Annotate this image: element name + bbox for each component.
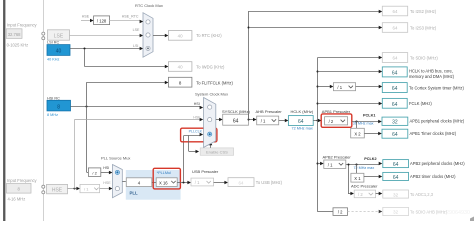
wire PCLK2 to ADC prescaler (348, 164, 354, 195)
dropdown /1 HSE prediv (disabled) (80, 184, 100, 192)
node X2 junction (356, 121, 358, 123)
svg-text:64: 64 (392, 102, 398, 108)
RTC mux radio LSI (selected) (146, 46, 150, 50)
system mux radio HSI (208, 105, 212, 109)
wire HCLK riser up to SDIO (318, 56, 383, 121)
node PLLCLK junction (183, 182, 185, 184)
node FCLK junction (317, 103, 319, 105)
svg-text:PLL: PLL (130, 190, 138, 195)
svg-text:HSI: HSI (103, 166, 109, 170)
svg-text:To RTC (KHz): To RTC (KHz) (196, 33, 222, 38)
APB2 peripheral value box 64 (383, 160, 409, 168)
svg-text:29064930: 29064930 (446, 210, 470, 216)
svg-text:0-1025 KHz: 0-1025 KHz (7, 42, 29, 47)
wire X2 to APB1 timer box (364, 132, 382, 135)
svg-text:LSE: LSE (133, 28, 140, 32)
highlight red box around PLLMul (153, 168, 180, 189)
To Cortex System timer value box 64 (382, 83, 407, 93)
svg-text:/ 2: / 2 (358, 192, 363, 197)
To ADC value box (disabled) (383, 190, 409, 198)
node HSI junction (86, 106, 88, 108)
wire to I2S3 (249, 26, 382, 29)
wire HCLK riser down to APB2 and SDIO AHB (317, 121, 319, 212)
highlight red box around PLLCLK input (181, 128, 217, 142)
svg-text:HSE: HSE (103, 181, 111, 185)
HSI RC box 8 (47, 100, 71, 111)
svg-text:8 MHz: 8 MHz (47, 113, 58, 117)
wire HCLK to FCLK (318, 102, 383, 105)
HCLK value box 64 (288, 116, 313, 126)
wire PLL mux output (122, 181, 126, 183)
svg-text:HCLK (MHz): HCLK (MHz) (291, 109, 314, 114)
node I2S3 junction (248, 27, 250, 29)
svg-text:/ 2: / 2 (338, 210, 343, 215)
corner artifact (470, 217, 474, 222)
svg-text:APB2 timer clocks (MHz): APB2 timer clocks (MHz) (410, 174, 456, 179)
To IWDG value box (168, 62, 192, 72)
svg-text:Enable CSS: Enable CSS (206, 149, 228, 154)
dropdown USB prescaler (disabled) (191, 178, 214, 186)
svg-text:APB2 Prescaler: APB2 Prescaler (323, 155, 352, 160)
system mux radio PLLCLK (selected) (208, 132, 212, 136)
svg-text:To SDIO (MHz): To SDIO (MHz) (410, 56, 438, 61)
svg-text:To ADC1,2,3: To ADC1,2,3 (410, 192, 434, 197)
SYSCLK value box 64 (223, 114, 249, 125)
node Cortex junction (317, 86, 319, 88)
LSI RC box 40 (47, 45, 70, 56)
wire HCLK to APB2 prescaler (318, 162, 324, 165)
To SDIO value box (382, 53, 407, 63)
APB1 peripheral value box 32 (382, 117, 408, 126)
svg-text:To SDIO AHB (MHz): To SDIO AHB (MHz) (410, 209, 448, 214)
wire LSI to RTC mux (70, 44, 143, 50)
svg-text:HSI RC: HSI RC (47, 96, 60, 100)
svg-text:HSE_RTC: HSE_RTC (122, 15, 139, 19)
wire ADC prescaler to ADC box (376, 192, 383, 195)
svg-text:PLL Source Mux: PLL Source Mux (101, 155, 130, 160)
wire PLLCLK riser to system clock mux (184, 133, 204, 182)
svg-text:/ 2: / 2 (92, 170, 97, 175)
node HCLK AHB junction (317, 71, 319, 73)
svg-text:72 MHz max: 72 MHz max (292, 126, 313, 130)
svg-text:/ 1: / 1 (195, 180, 200, 185)
svg-text:64: 64 (393, 162, 399, 168)
svg-text:/ 128: / 128 (97, 18, 107, 23)
svg-text:X 1: X 1 (354, 176, 361, 181)
wire SYSCLK riser to I2S (249, 10, 383, 120)
PLL mux radio HSE (115, 187, 119, 191)
multiplier X2 box (351, 128, 365, 138)
svg-text:USB Prescaler: USB Prescaler (192, 169, 219, 174)
wire Cortex prescaler to Cortex timer box (356, 85, 383, 88)
wire USB prescaler to USB box (214, 181, 228, 184)
svg-text:LSE: LSE (54, 34, 64, 40)
svg-text:SYSCLK (MHz): SYSCLK (MHz) (222, 109, 250, 114)
svg-text:/ 1: / 1 (328, 162, 333, 167)
To USB value box (disabled) (228, 178, 254, 187)
dropdown APB1 prescaler /2 (325, 117, 348, 125)
node SYSCLK junction (248, 119, 250, 121)
svg-text:/ 1: / 1 (84, 187, 89, 192)
wire PCLK2 to X1 (356, 164, 358, 173)
svg-text:64: 64 (392, 86, 398, 92)
svg-text:System Clock Mux: System Clock Mux (195, 91, 228, 96)
To I2S2 value box (382, 6, 407, 16)
HSE input frequency field 8 (7, 183, 32, 193)
SDIO AHB value box (disabled) (383, 207, 409, 215)
svg-text:40: 40 (56, 49, 62, 55)
HSE pin circle OSC_IN (42, 185, 45, 188)
svg-text:32: 32 (392, 120, 398, 126)
svg-text:64: 64 (393, 26, 398, 31)
node APB2 junction (317, 163, 319, 165)
svg-text:memory and DMA (MHz): memory and DMA (MHz) (409, 74, 455, 79)
svg-text:64: 64 (298, 119, 304, 125)
dropdown AHB prescaler /1 (257, 116, 279, 125)
left pane splitter bar (3, 0, 6, 221)
svg-text:Input Frequency: Input Frequency (7, 22, 38, 27)
wire HCLK bottom to /2 divider (318, 211, 333, 213)
APB2 timer value box 64 (383, 172, 409, 180)
multiplier X1 box (351, 173, 364, 182)
LSE input frequency field 32.768 (6, 29, 22, 39)
RTC mux radio HSE_RTC (146, 20, 150, 24)
wire APB2 prescaler to PCLK2 (346, 162, 383, 165)
wire AHB prescaler to HCLK (279, 119, 289, 122)
wire LSE to RTC mux (70, 28, 144, 37)
svg-text:APB1 peripheral clocks (MHz): APB1 peripheral clocks (MHz) (410, 119, 465, 124)
svg-text:32: 32 (393, 210, 398, 215)
Enable CSS button (200, 148, 233, 155)
svg-text:40: 40 (178, 34, 183, 39)
wire X1 to APB2 timer box (364, 175, 382, 178)
wire PLL output to USB prescaler (177, 181, 191, 184)
PLL block panel (126, 170, 181, 200)
svg-text:8: 8 (57, 104, 60, 110)
svg-text:/ 1: / 1 (261, 119, 266, 124)
wire CSS up-arrow into mux (209, 142, 213, 148)
HSE source box (disabled) (47, 184, 68, 193)
svg-text:To I2S2 (MHz): To I2S2 (MHz) (410, 9, 437, 14)
LSE source box (disabled) (48, 30, 70, 40)
svg-text:AHB Prescaler: AHB Prescaler (256, 109, 283, 114)
HSE pin circle OSC_OUT (42, 191, 45, 194)
wire RTC mux output (153, 34, 168, 37)
svg-text:Input Frequency: Input Frequency (7, 178, 38, 183)
mux RTC Clock Mux (143, 13, 153, 58)
wire HSI down to PLL /2 divider (87, 106, 89, 172)
svg-text:To I2S3 (MHz): To I2S3 (MHz) (410, 26, 437, 31)
wire PCLK1 to X2 (356, 121, 358, 128)
wire HSE to system clock mux (75, 115, 204, 121)
PLL input value box 4 (126, 178, 152, 187)
wire HCLK to Cortex prescaler (318, 85, 334, 88)
svg-text:X 16: X 16 (159, 181, 168, 186)
svg-text:LSI RC: LSI RC (47, 40, 59, 44)
svg-text:64: 64 (393, 175, 399, 181)
svg-text:PLLCLK: PLLCLK (189, 129, 203, 133)
dropdown Cortex prescaler /1 (333, 83, 355, 91)
svg-text:HCLK to AHB bus, core,: HCLK to AHB bus, core, (409, 68, 453, 73)
mux System Clock Mux (204, 98, 216, 148)
svg-text:64: 64 (392, 132, 398, 138)
node HSE junction (74, 188, 76, 190)
wire HSE rail up to /128 and system mux (74, 120, 76, 189)
svg-text:X 2: X 2 (354, 132, 361, 137)
node X1 junction (356, 164, 358, 166)
divider /2 box (HSI to PLL) (88, 168, 100, 177)
wire HSI to system clock mux (71, 102, 204, 109)
svg-text:PCLK2: PCLK2 (364, 157, 376, 161)
wire APB1 prescaler to PCLK1 (352, 120, 382, 123)
system mux radio HSE (208, 118, 212, 122)
mux PLL Source Mux (113, 165, 123, 198)
svg-text:APB2 peripheral clocks (MHz): APB2 peripheral clocks (MHz) (410, 161, 465, 166)
svg-text:64: 64 (233, 118, 239, 124)
node LSI junction (84, 48, 86, 50)
wire to Enable CSS (189, 135, 200, 153)
node ADC junction (348, 164, 350, 166)
svg-text:64: 64 (239, 180, 244, 185)
svg-text:/ 2: / 2 (329, 119, 334, 124)
svg-text:64: 64 (393, 9, 398, 14)
To RTC value box (168, 31, 192, 41)
svg-text:/ 1: / 1 (337, 85, 342, 90)
svg-text:APB1 Timer clocks (MHz): APB1 Timer clocks (MHz) (410, 131, 457, 136)
wire HSE to PLL /1 divider (68, 187, 81, 190)
svg-text:ADC Prescaler: ADC Prescaler (351, 183, 378, 188)
wire SYSCLK to AHB prescaler (249, 118, 257, 121)
node HCLK junction (317, 120, 319, 122)
svg-text:HSE: HSE (52, 188, 63, 194)
dropdown PLLMul X16 (156, 178, 177, 187)
To FLITFCLK value box 8 (168, 77, 192, 87)
wire HSI to FLITFCLK (87, 81, 169, 106)
svg-text:HSI: HSI (194, 102, 200, 106)
wire HSI/2 to PLL source mux (101, 166, 113, 174)
LSE pin circle OSC32_OUT (42, 37, 45, 40)
To I2S3 value box (382, 23, 407, 33)
svg-text:FCLK (MHz): FCLK (MHz) (409, 101, 432, 106)
svg-text:To IWDG (KHz): To IWDG (KHz) (196, 64, 225, 69)
svg-text:LSI: LSI (133, 44, 138, 48)
svg-text:40: 40 (178, 65, 183, 70)
dropdown ADC prescaler /2 (disabled) (354, 190, 375, 198)
svg-text:To FLITFCLK (MHz): To FLITFCLK (MHz) (196, 80, 233, 85)
LSE oscillator pin rail (43, 0, 45, 221)
svg-text:To Cortex System timer (MHz): To Cortex System timer (MHz) (409, 85, 464, 90)
svg-text:64: 64 (393, 56, 398, 61)
svg-text:*PLLMul: *PLLMul (157, 171, 172, 175)
divider /2 box (SDIO AHB) (333, 208, 348, 216)
svg-text:RTC Clock Mux: RTC Clock Mux (135, 3, 163, 8)
FCLK value box 64 (382, 98, 407, 108)
svg-text:HSE: HSE (193, 115, 201, 119)
divider /128 box (94, 16, 110, 25)
wire PLL input to PLLMul (152, 182, 156, 184)
wire system mux output to SYSCLK (216, 118, 223, 121)
PLL mux radio HSI (selected) (115, 170, 119, 174)
svg-text:To USB (MHz): To USB (MHz) (256, 180, 283, 185)
wire HSE/1 to PLL source mux (100, 181, 113, 190)
wire HSE_RTC to RTC mux (110, 15, 144, 24)
dropdown APB2 prescaler /1 (324, 160, 346, 168)
svg-text:4-16 MHz: 4-16 MHz (8, 197, 26, 202)
svg-text:PCLK1: PCLK1 (363, 113, 375, 117)
APB1 timer value box 64 (382, 129, 408, 138)
svg-text:32: 32 (393, 192, 398, 197)
wire HSE to /128 divider (81, 14, 94, 22)
svg-text:32.768: 32.768 (8, 32, 21, 37)
wire HCLK to AHB output (318, 70, 383, 73)
svg-text:40 KHz: 40 KHz (47, 57, 60, 61)
HCLK to AHB value box 64 (382, 67, 407, 77)
LSE pin circle OSC32_IN (42, 32, 45, 35)
svg-text:64: 64 (392, 70, 398, 76)
svg-text:HSE: HSE (82, 14, 90, 18)
wire LSI to IWDG (85, 49, 169, 68)
highlight red box around APB1 prescaler (321, 114, 352, 127)
wire HCLK to APB1 prescaler (313, 119, 321, 122)
RTC mux radio LSE (146, 33, 150, 37)
wire /2 to SDIO AHB box (348, 210, 383, 213)
